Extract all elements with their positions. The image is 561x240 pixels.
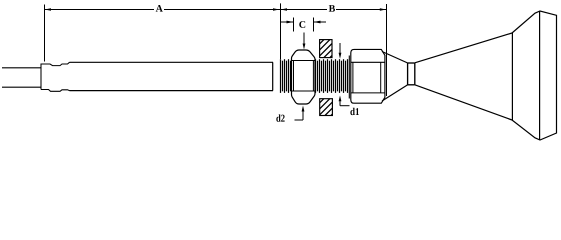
arrowhead A left	[45, 8, 52, 11]
svg-text:A: A	[156, 4, 164, 15]
svg-text:C: C	[299, 20, 306, 31]
main barrel	[70, 62, 274, 90]
arrowhead C right (points left)	[314, 21, 321, 24]
extension line A/B junction	[280, 3, 282, 59]
arrowhead B right	[380, 8, 387, 11]
d1 bottom arrow + leader	[339, 96, 342, 102]
panel section top (hatched)	[320, 40, 332, 58]
threads left section	[281, 59, 291, 93]
svg-text:d1: d1	[350, 107, 360, 118]
d2 bottom arrow + leader	[302, 106, 305, 112]
extension line left of A	[44, 5, 46, 62]
arrowhead A right	[273, 8, 280, 11]
tube (left pipe)	[2, 68, 41, 87]
neck	[408, 63, 415, 85]
dimension C	[281, 18, 327, 32]
bell mouth	[512, 11, 557, 140]
ferrule collar outline	[41, 62, 70, 91]
d1 top arrow	[339, 43, 341, 54]
hex corner boundary verticals	[352, 62, 354, 93]
svg-text:d2: d2	[276, 114, 285, 125]
dimension line B	[280, 9, 387, 11]
hex face edge lines	[351, 61, 385, 63]
arrowhead C left (points right)	[287, 21, 294, 24]
jam nut d2	[292, 50, 316, 104]
dimension line A	[44, 9, 280, 11]
threads right section	[316, 59, 348, 93]
taper from hex to neck	[382, 52, 408, 102]
panel section bottom (hatched)	[320, 99, 333, 116]
nut corner boundary verticals	[293, 61, 295, 92]
extension line right of B	[386, 4, 388, 96]
d2 top arrow	[303, 33, 305, 45]
thread end stub	[348, 56, 350, 99]
cone (funnel body)	[415, 33, 513, 120]
svg-text:B: B	[329, 4, 336, 15]
hex body	[351, 49, 385, 103]
arrowhead B left	[281, 8, 288, 11]
